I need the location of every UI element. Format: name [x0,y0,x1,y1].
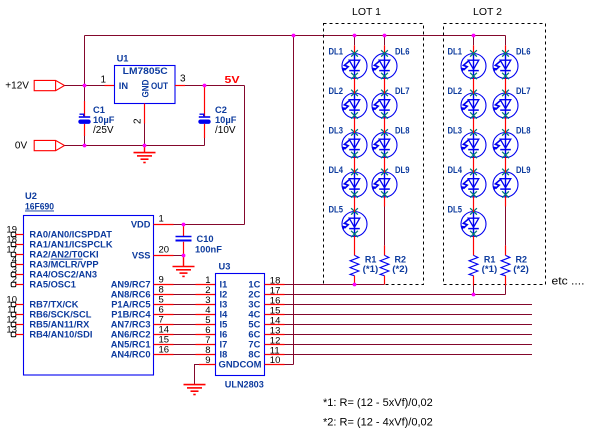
LED DL4 (LOT 2) [461,169,486,198]
wire COM horizontal [285,364,294,366]
wire DL9 to R2 LOT 1 [384,207,386,246]
capacitor C2 symbol [199,114,210,123]
pin 12 stub U3 7C [265,344,285,346]
svg-text:2C: 2C [248,290,260,300]
capacitor C10 symbol [176,237,192,241]
svg-text:DL1: DL1 [448,47,463,57]
wire U1 GND to 0V rail [144,124,146,146]
svg-text:LM7805C: LM7805C [123,66,168,76]
svg-text:DL7: DL7 [395,86,410,96]
svg-text:OUT: OUT [151,81,168,91]
svg-text:GND: GND [141,79,151,97]
net 3C line etc [285,304,533,306]
driver U3 box [216,274,265,376]
ground stem under C10 [183,256,185,267]
pin 11 stub U2 [16,314,24,316]
pin 13 U2 RB4/AN10/SDI terminal square [11,332,16,337]
pin 7 stub U3 I7 [196,344,216,346]
pin lead between LEDs to DL4 LOT 1 [354,157,356,173]
svg-text:4C: 4C [248,310,260,320]
junction 5V / C2 [203,84,207,88]
svg-text:VDD: VDD [131,220,151,230]
pin 17 stub U3 2C [265,294,285,296]
LED DL6 (LOT 2) [493,50,518,79]
svg-text:I4: I4 [220,310,229,320]
ground symbol under U3 [184,385,206,395]
svg-text:1: 1 [159,214,164,225]
pin 8 stub U3 I8 [196,354,216,356]
svg-text:I6: I6 [220,330,228,340]
LED DL9 (LOT 1) [372,169,397,198]
svg-text:3C: 3C [248,300,260,310]
pin 16 stub U3 3C [265,304,285,306]
wire C2 to 0V rail [204,138,206,146]
pin 5 stub U2 P1A/RC5 [154,304,174,306]
pin 10 stub U3 COM [265,364,285,366]
svg-text:100nF: 100nF [195,245,222,255]
pin 18 U2 RA1/AN1/ICSPCLK terminal square [11,242,16,247]
pin lead between LEDs to DL7 LOT 1 [384,78,386,94]
pin 10 stub U2 [16,304,24,306]
wire 5V riser down to VDD [244,86,246,225]
svg-text:DL6: DL6 [516,47,531,57]
wire P1A/RC5 to U3 I3 [174,304,196,306]
svg-text:R1: R1 [365,255,377,265]
pin lead between LEDs to DL2 LOT 2 [473,78,475,94]
svg-text:RB7/TX/CK: RB7/TX/CK [29,300,78,310]
svg-text:LOT 1: LOT 1 [352,6,381,18]
net 5C line etc [285,324,533,326]
pin lead R1 bottom LOT1 [354,276,356,285]
junction rail / LOT1 col A [353,34,357,38]
LED DL4 (LOT 1) [342,169,367,198]
pin 9 stub U3 GND [199,364,216,366]
pin 3 stub U1 OUT [175,85,185,87]
LED DL5 (LOT 1) [342,208,367,237]
svg-text:DL8: DL8 [516,126,531,136]
svg-text:+12V: +12V [5,81,29,92]
wire +12V input to U1 pin1 [65,85,105,87]
svg-text:20: 20 [159,245,170,256]
ground symbol under U1 pin 2 [134,153,156,163]
svg-text:AN4/RC0: AN4/RC0 [111,350,151,360]
svg-text:5V: 5V [225,74,240,86]
pin 9 stub U2 AN9/RC7 [154,284,174,286]
svg-text:RA4/OSC2/AN3: RA4/OSC2/AN3 [29,270,97,280]
svg-text:(*1): (*1) [482,264,498,274]
pin 2 stub U2 [16,284,24,286]
pin 2 U2 RA5/OSC1 terminal square [11,282,16,287]
pin top lead DL6 LOT 2 [505,45,507,54]
svg-text:U2: U2 [25,191,37,201]
pin 1 stub U3 I1 [196,284,216,286]
LOT 1 dashed enclosure [324,24,424,285]
LED DL8 (LOT 2) [493,129,518,158]
svg-text:2: 2 [12,274,17,285]
svg-text:IN: IN [119,81,129,91]
net 8C line etc [285,354,533,356]
junction 0V / U1 GND / ground [143,144,147,148]
LED DL5 (LOT 2) [461,208,486,237]
svg-text:AN5/RC1: AN5/RC1 [111,340,151,350]
wire rail stub LOT 1 col A [354,36,356,46]
svg-text:R2: R2 [516,255,528,265]
wire rail stub LOT 2 col A [473,36,475,46]
svg-text:AN6/RC2: AN6/RC2 [111,330,151,340]
junction +12V rail / COM riser [292,34,296,38]
wire rail stub LOT 1 col B [384,36,386,46]
svg-text:DL5: DL5 [448,205,463,215]
wire VSS to C10 [174,255,184,257]
pin lead DL5 to R1 LOT 1 [354,236,356,255]
pin 14 stub U2 AN6/RC2 [154,334,174,336]
pin C1 bottom lead [84,124,86,136]
svg-text:I1: I1 [220,280,228,290]
svg-text:DL7: DL7 [516,86,531,96]
net 1C line to LOT 1 [285,284,385,286]
wire U3 GND to ground [195,365,200,385]
svg-text:ULN2803: ULN2803 [225,380,264,390]
svg-text:2: 2 [133,118,144,124]
svg-text:DL4: DL4 [448,165,463,175]
LED DL1 (LOT 1) [342,50,367,79]
svg-text:(*1): (*1) [363,264,379,274]
pin 6 stub U2 P1B/RC4 [154,314,174,316]
svg-text:I5: I5 [220,320,228,330]
pin lead DL5 to R1 LOT 2 [473,236,475,255]
junction VDD / C10 [182,223,186,227]
svg-text:etc ....: etc .... [552,276,585,288]
pin 18 stub U3 1C [265,284,285,286]
pin 19 stub U2 [16,234,24,236]
LED DL3 (LOT 1) [342,129,367,158]
LED DL7 (LOT 1) [372,90,397,119]
svg-text:RB6/SCK/SCL: RB6/SCK/SCL [29,310,91,320]
svg-text:*1: R= (12 - 5xVf)/0,02: *1: R= (12 - 5xVf)/0,02 [323,397,433,409]
pin lead R2 top LOT 2 [505,245,507,255]
pin 1 stub U1 IN [105,85,115,87]
svg-text:I8: I8 [220,350,228,360]
svg-text:AN9/RC7: AN9/RC7 [111,280,151,290]
svg-text:AN7/RC3: AN7/RC3 [111,320,151,330]
svg-text:13: 13 [6,324,17,335]
wire VDD to 5V riser [174,224,245,226]
svg-text:10µF: 10µF [93,115,115,125]
pin 16 stub U2 AN4/RC0 [154,354,174,356]
pin 15 stub U3 4C [265,314,285,316]
pin lead R2 bottom LOT1 [384,276,386,285]
pin lead between LEDs to DL9 LOT 2 [505,157,507,173]
ground symbol under C10 [173,267,195,277]
pin 11 U2 RB6/SCK/SCL terminal square [11,312,16,317]
net 7C line etc [285,344,533,346]
svg-text:5C: 5C [248,320,260,330]
pin C10 bottom lead [183,242,185,256]
LED DL8 (LOT 1) [372,129,397,158]
svg-text:LOT 2: LOT 2 [473,6,502,18]
LOT 2 dashed enclosure [444,24,546,285]
wire C1 to 0V rail [84,136,86,146]
pin 1 stub U2 VDD [154,224,174,226]
junction VSS / C10 / ground [182,254,186,258]
wire AN5/RC1 to U3 I7 [174,344,196,346]
svg-text:RB5/AN11/RX: RB5/AN11/RX [29,320,90,330]
svg-text:*2: R= (12 - 4xVf)/0,02: *2: R= (12 - 4xVf)/0,02 [323,417,433,429]
junction rail / LOT2 col A [472,34,476,38]
svg-text:RA2/AN2/T0CKI: RA2/AN2/T0CKI [29,250,98,260]
wire AN9/RC7 to U3 I1 [174,284,196,286]
capacitor C1 symbol [79,114,90,123]
pin 2 stub U3 I2 [196,294,216,296]
wire AN4/RC0 to U3 I8 [174,354,196,356]
LED DL2 (LOT 2) [461,90,486,119]
svg-text:DL9: DL9 [516,165,531,175]
pin lead between LEDs to DL3 LOT 1 [354,118,356,134]
wire +12V top rail [85,35,506,37]
net 2C line to LOT 2 [285,294,506,296]
resistor R2 (LOT 1) [380,255,389,275]
svg-text:DL9: DL9 [395,165,410,175]
pin 4 U2 RA3/MCLR/VPP terminal square [11,262,16,267]
pin lead DL9 bottom LOT 2 [505,197,507,207]
svg-text:R2: R2 [395,255,407,265]
svg-text:C2: C2 [215,105,227,115]
pin 2 stub U1 GND [144,104,146,124]
svg-text:RB4/AN10/SDI: RB4/AN10/SDI [29,330,92,340]
wire AN6/RC2 to U3 I6 [174,334,196,336]
pin 15 stub U2 AN5/RC1 [154,344,174,346]
svg-text:DL4: DL4 [329,165,344,175]
svg-text:DL3: DL3 [448,126,463,136]
pin C1 top lead [84,101,86,117]
svg-text:DL2: DL2 [329,86,344,96]
pin C2 bottom lead [204,124,206,138]
svg-text:AN8/RC6: AN8/RC6 [111,290,151,300]
pin 5 stub U3 I5 [196,324,216,326]
pin lead between LEDs to DL7 LOT 2 [505,78,507,94]
pin 13 stub U2 [16,334,24,336]
resistor R1 (LOT 2) [469,255,478,275]
wire COM riser to +12V rail [293,36,295,365]
pin lead between LEDs to DL5 LOT 1 [354,197,356,213]
junction net 2C / R1 LOT2 [472,293,476,297]
svg-text:1: 1 [100,75,106,86]
net 4C line etc [285,314,533,316]
wire AN7/RC3 to U3 I5 [174,324,196,326]
wire R1 LOT2 to net 2C [473,286,475,295]
LED DL3 (LOT 2) [461,129,486,158]
svg-text:RA5/OSC1: RA5/OSC1 [29,280,76,290]
wire DL9 to R2 LOT 2 [505,207,507,246]
pin lead between LEDs to DL8 LOT 2 [505,118,507,134]
junction +12V / C1 / U1 pin1 [83,84,87,88]
pin 3 stub U3 I3 [196,304,216,306]
net 6C line etc [285,334,533,336]
wire +12V riser to top rail [84,36,86,102]
pin 8 stub U2 AN8/RC6 [154,294,174,296]
pin lead R1 bottom LOT2 [473,276,475,286]
svg-text:U1: U1 [117,54,129,64]
pin 4 stub U2 [16,264,24,266]
svg-text:I7: I7 [220,340,228,350]
pin top lead DL1 LOT 1 [354,45,356,54]
LED DL6 (LOT 1) [372,50,397,79]
wire rail stub LOT 2 col B [505,36,507,46]
resistor R1 (LOT 1) [350,255,359,275]
pin lead between LEDs to DL4 LOT 2 [473,157,475,173]
LED DL7 (LOT 2) [493,90,518,119]
svg-text:P1B/RC4: P1B/RC4 [111,310,151,320]
pin 10 U2 RB7/TX/CK terminal square [11,302,16,307]
svg-text:P1A/RC5: P1A/RC5 [111,300,150,310]
pin 20 stub U2 VSS [154,255,174,257]
pin 12 U2 RB5/AN11/RX terminal square [11,322,16,327]
svg-text:U3: U3 [219,262,231,272]
pin 11 stub U3 8C [265,354,285,356]
svg-text:RA3/MCLR/VPP: RA3/MCLR/VPP [29,260,98,270]
pin C10 top lead [183,225,185,237]
junction net 1C / R1 LOT1 [353,283,357,287]
pin lead R2 top LOT 1 [384,245,386,255]
svg-text:8C: 8C [248,350,260,360]
svg-text:R1: R1 [484,255,496,265]
pin 4 stub U3 I4 [196,314,216,316]
svg-text:7C: 7C [248,340,260,350]
pin 6 stub U3 I6 [196,334,216,336]
svg-text:VSS: VSS [132,251,151,261]
microcontroller U2 box [24,216,154,376]
pin lead between LEDs to DL8 LOT 1 [384,118,386,134]
wire P1B/RC4 to U3 I4 [174,314,196,316]
svg-text:RA1/AN1/ICSPCLK: RA1/AN1/ICSPCLK [29,240,112,250]
pin lead between LEDs to DL3 LOT 2 [473,118,475,134]
svg-text:DL5: DL5 [329,205,344,215]
svg-text:GNDCOM: GNDCOM [219,360,262,370]
pin C2 top lead [204,86,206,117]
svg-text:16F690: 16F690 [25,202,54,212]
port +12V connector [34,80,64,90]
svg-text:/25V: /25V [93,125,114,136]
ground stem under U1 [144,146,146,153]
svg-text:10µF: 10µF [215,115,237,125]
wire 5V horizontal [185,85,245,87]
pin lead between LEDs to DL5 LOT 2 [473,197,475,213]
pin 18 stub U2 [16,244,24,246]
port 0V connector [34,140,64,150]
pin top lead DL1 LOT 2 [473,45,475,54]
svg-text:RA0/AN0/ICSPDAT: RA0/AN0/ICSPDAT [29,230,112,240]
svg-text:(*2): (*2) [392,264,408,274]
wire R2 LOT2 to net 2C [505,286,507,295]
pin 14 stub U3 5C [265,324,285,326]
LED DL1 (LOT 2) [461,50,486,79]
LED DL2 (LOT 1) [342,90,367,119]
pin 12 stub U2 [16,324,24,326]
pin 3 U2 RA4/OSC2/AN3 terminal square [11,272,16,277]
junction rail / LOT1 col B [383,34,387,38]
svg-text:0V: 0V [15,141,28,152]
pin lead DL9 bottom LOT 1 [384,197,386,207]
svg-text:I3: I3 [220,300,228,310]
pin 17 stub U2 [16,254,24,256]
resistor R2 (LOT 2) [501,255,510,275]
svg-text:C10: C10 [197,234,214,244]
svg-text:1C: 1C [248,280,260,290]
pin lead R2 bottom LOT2 [505,276,507,286]
svg-text:DL3: DL3 [329,126,344,136]
svg-text:3: 3 [180,74,186,85]
pin 13 stub U3 6C [265,334,285,336]
pin 7 stub U2 AN7/RC3 [154,324,174,326]
svg-text:6C: 6C [248,330,260,340]
wire 0V rail [65,145,205,147]
pin top lead DL6 LOT 1 [384,45,386,54]
pin 19 U2 RA0/AN0/ICSPDAT terminal square [11,232,16,237]
LED DL9 (LOT 2) [493,169,518,198]
svg-text:DL6: DL6 [395,47,410,57]
svg-text:DL8: DL8 [395,126,410,136]
svg-text:DL2: DL2 [448,86,463,96]
svg-text:(*2): (*2) [513,264,529,274]
svg-text:C1: C1 [93,105,105,115]
svg-text:I2: I2 [220,290,228,300]
junction 0V / C1 [83,144,87,148]
wire AN8/RC6 to U3 I2 [174,294,196,296]
pin lead between LEDs to DL9 LOT 1 [384,157,386,173]
svg-text:/10V: /10V [215,125,236,136]
svg-text:DL1: DL1 [329,47,344,57]
pin 3 stub U2 [16,274,24,276]
pin lead between LEDs to DL2 LOT 1 [354,78,356,94]
pin 17 U2 RA2/AN2/T0CKI terminal square [11,252,16,257]
voltage regulator U1 box [115,66,176,104]
